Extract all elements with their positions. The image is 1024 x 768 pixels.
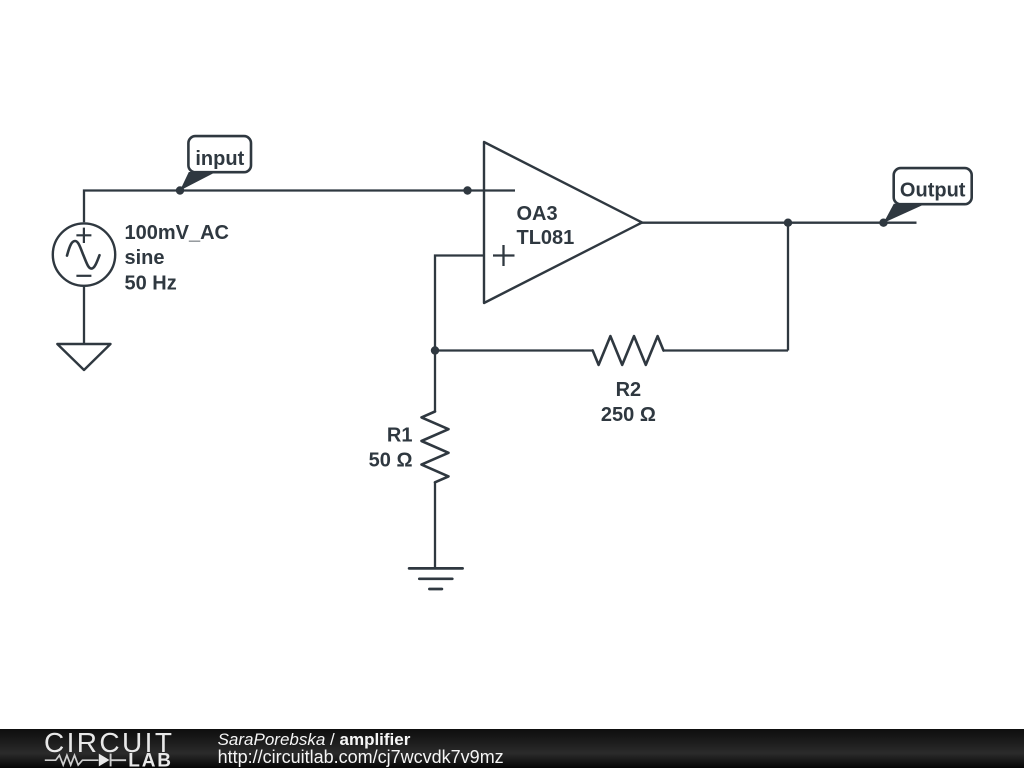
- resistor R2 zigzag: [593, 336, 664, 365]
- ground (earth triangle) under source: [57, 344, 110, 370]
- svg-text:50 Hz: 50 Hz: [125, 272, 177, 294]
- CircuitLab logo resistor-diode glyph: [45, 755, 99, 765]
- V1 plus sign: [76, 228, 91, 243]
- wire input net: source top to op-amp inverting input: [84, 191, 484, 223]
- flag "Output" callout box: [894, 168, 972, 204]
- node feedback / R1 junction: [431, 346, 439, 354]
- wire feedback vertical: [787, 223, 789, 351]
- svg-text:SaraPorebska / amplifier: SaraPorebska / amplifier: [218, 730, 411, 749]
- op-amp OA3 triangle: [484, 142, 642, 303]
- voltage source V1 circle: [53, 223, 115, 285]
- svg-text:LAB: LAB: [128, 750, 172, 768]
- node output feedback junction: [784, 219, 792, 227]
- svg-text:50 Ω: 50 Ω: [369, 450, 413, 472]
- svg-text:OA3: OA3: [517, 203, 558, 225]
- wire output net: [642, 222, 917, 224]
- svg-text:input: input: [195, 148, 244, 170]
- svg-text:250 Ω: 250 Ω: [601, 404, 656, 426]
- wire feedback left segment: [435, 349, 593, 351]
- svg-text:sine: sine: [125, 247, 165, 269]
- V1 sine wave: [67, 241, 100, 269]
- ground (3-bar) under R1: [409, 568, 463, 589]
- footer bar: [0, 729, 1024, 768]
- wire R1 to ground: [434, 482, 436, 568]
- flag "input" callout tail: [180, 172, 216, 191]
- svg-text:TL081: TL081: [517, 227, 575, 249]
- op-amp plus symbol: [493, 245, 515, 266]
- svg-text:R2: R2: [616, 379, 642, 401]
- wire feedback right segment: [664, 349, 789, 351]
- V1 minus sign: [76, 275, 91, 277]
- op-amp inverting stub (minus): [484, 189, 515, 191]
- wire source to ground: [83, 287, 85, 344]
- wire non-inverting input: [435, 256, 484, 351]
- node output flag junction: [879, 219, 887, 227]
- node input flag junction: [176, 186, 184, 194]
- wire junction to R1: [434, 351, 436, 412]
- svg-text:Output: Output: [900, 180, 966, 202]
- svg-text:R1: R1: [387, 425, 413, 447]
- svg-text:http://circuitlab.com/cj7wcvdk: http://circuitlab.com/cj7wcvdk7v9mz: [218, 747, 504, 767]
- resistor R1 zigzag: [422, 412, 449, 483]
- svg-text:100mV_AC: 100mV_AC: [125, 222, 230, 244]
- flag "input" callout box: [188, 136, 251, 172]
- flag "Output" callout tail: [884, 204, 926, 223]
- node at op-amp inverting input: [463, 186, 471, 194]
